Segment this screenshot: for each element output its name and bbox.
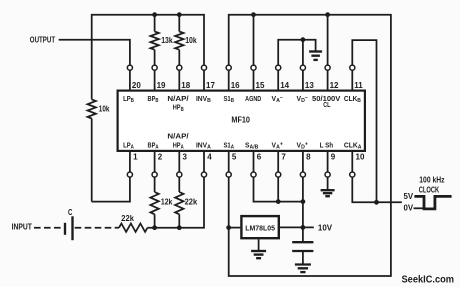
resistor 10k feedback R1 xyxy=(88,99,96,201)
svg-text:AGND: AGND xyxy=(245,94,261,103)
svg-text:100 kHz: 100 kHz xyxy=(419,174,444,184)
pin number 8 xyxy=(306,153,311,162)
svg-text:CL: CL xyxy=(323,100,330,109)
pin number 11 xyxy=(354,81,363,90)
svg-text:10k: 10k xyxy=(185,35,197,45)
wire pin 13 stub top xyxy=(302,70,304,89)
pin label N/AP/ top xyxy=(167,94,189,103)
pin label V_A- xyxy=(272,94,284,104)
node pin 17 terminal xyxy=(201,65,206,70)
junction dot 10V-pin8 xyxy=(301,225,306,230)
wire input dashed right xyxy=(75,227,116,229)
wire pin 19 stub top xyxy=(154,70,156,89)
svg-text:14: 14 xyxy=(280,81,289,90)
ground bypass cap xyxy=(295,265,311,273)
node pin 12 terminal xyxy=(325,65,330,70)
wire V_D- pin13 drop xyxy=(302,40,304,65)
wire pin 1 stub bottom xyxy=(129,152,131,172)
wire CLK_B pin11 to clock line xyxy=(352,40,376,202)
svg-text:15: 15 xyxy=(256,81,265,90)
wire L Sh pin9 ground stub xyxy=(327,177,329,189)
node pin 15 terminal xyxy=(251,65,256,70)
pin number 2 xyxy=(158,153,163,162)
svg-text:17: 17 xyxy=(206,81,215,90)
pin number 10 xyxy=(356,153,365,162)
label 5V xyxy=(404,191,414,201)
wire input dashed left xyxy=(34,227,63,229)
wire V_A+ pin7 drop xyxy=(277,177,279,201)
wire V_D+ pin8 down to bypass cap xyxy=(302,177,304,241)
capacitor C input coupling xyxy=(65,216,73,240)
label C xyxy=(68,207,72,217)
pin number 18 xyxy=(181,81,190,90)
wire pin 6 stub bottom xyxy=(253,152,255,172)
ground level shift pin9 xyxy=(321,190,335,196)
pin label INV_A xyxy=(196,140,212,150)
wire pin 14 stub top xyxy=(277,70,279,89)
resistor 22k shunt R6 xyxy=(175,177,183,227)
wire pin 10 stub bottom xyxy=(351,152,353,172)
pin label BP_B xyxy=(148,94,159,104)
wire pin 8 stub bottom xyxy=(302,152,304,172)
svg-text:LM78L05: LM78L05 xyxy=(245,223,276,232)
wire pin 4 stub bottom xyxy=(203,152,205,172)
pin label HP_B xyxy=(173,103,184,113)
svg-text:13: 13 xyxy=(305,81,314,90)
junction dot input-12k xyxy=(152,225,157,230)
pin label CLK_A xyxy=(344,140,362,150)
ground analog supply xyxy=(309,52,322,60)
pin number 6 xyxy=(257,153,262,162)
pin number 9 xyxy=(331,153,336,162)
pin number 3 xyxy=(183,153,188,162)
node pin 4 terminal xyxy=(201,172,206,177)
node pin 3 terminal xyxy=(177,172,182,177)
wire pin 17 stub top xyxy=(203,70,205,89)
op-amp IC MF10 U1 body xyxy=(118,91,365,151)
svg-text:CLOCK: CLOCK xyxy=(419,184,440,194)
wire V_A- V_D- ground link xyxy=(278,40,315,65)
junction dot rail-pin15 xyxy=(251,12,256,17)
pin label LP_A xyxy=(123,140,134,150)
label 13k R2 xyxy=(161,35,173,45)
wire pin 12 stub top xyxy=(327,70,329,89)
pin number 1 xyxy=(133,153,138,162)
svg-text:4: 4 xyxy=(207,153,212,162)
wire pin 7 stub bottom xyxy=(277,152,279,172)
label 10V xyxy=(318,222,333,232)
label 100 kHz xyxy=(419,174,444,184)
svg-text:C: C xyxy=(68,207,72,217)
node pin 6 terminal xyxy=(251,172,256,177)
junction dot pin8-link xyxy=(301,199,306,204)
node pin 5 terminal xyxy=(226,172,231,177)
svg-text:20: 20 xyxy=(132,81,141,90)
svg-text:0V: 0V xyxy=(404,203,414,213)
pin number 13 xyxy=(305,81,314,90)
pin label CL xyxy=(323,100,330,109)
pin label CLK_B xyxy=(344,94,361,104)
pin number 7 xyxy=(281,153,286,162)
svg-text:13k: 13k xyxy=(161,35,173,45)
junction dot rail-pin12 xyxy=(325,12,330,17)
svg-text:11: 11 xyxy=(354,81,363,90)
pin label S1_B xyxy=(223,94,234,104)
regulator U2 LM78L05 body xyxy=(241,216,278,238)
svg-text:10: 10 xyxy=(356,153,365,162)
svg-text:22k: 22k xyxy=(185,197,198,207)
wire pin 16 stub top xyxy=(228,70,230,89)
ground regulator xyxy=(251,251,266,258)
svg-text:8: 8 xyxy=(306,153,311,162)
junction dot clk xyxy=(374,200,379,205)
wire AGND rail: S1_B, AGND, CL, right side, bottom rail to S1_A xyxy=(229,15,391,276)
svg-text:12: 12 xyxy=(330,81,339,90)
node pin 19 terminal xyxy=(152,65,157,70)
svg-text:16: 16 xyxy=(231,81,240,90)
junction dot pin7-link xyxy=(276,199,281,204)
pin number 19 xyxy=(157,81,166,90)
pin label V_D+ xyxy=(297,140,309,150)
svg-text:2: 2 xyxy=(158,153,163,162)
svg-text:7: 7 xyxy=(281,153,286,162)
wire pin 15 stub top xyxy=(253,70,255,89)
label OUTPUT xyxy=(30,35,56,45)
node pin 1 terminal xyxy=(127,172,132,177)
label 10k R3 xyxy=(185,35,197,45)
pin number 14 xyxy=(280,81,289,90)
pin number 4 xyxy=(207,153,212,162)
node pin 9 terminal xyxy=(325,172,330,177)
resistor 13k R2 xyxy=(150,15,158,65)
svg-text:1: 1 xyxy=(133,153,138,162)
svg-text:10V: 10V xyxy=(318,222,333,232)
label 22k R4 xyxy=(121,213,134,223)
clock waveform 100kHz xyxy=(414,196,451,209)
wire AGND pin15 drop xyxy=(253,15,255,65)
label 0V xyxy=(404,203,414,213)
wire pin 9 stub bottom xyxy=(327,152,329,172)
svg-text:OUTPUT: OUTPUT xyxy=(30,35,56,45)
wire LP_A pin1 to feedback node xyxy=(92,177,130,201)
svg-text:MF10: MF10 xyxy=(231,114,250,124)
pin label L Sh xyxy=(320,140,334,149)
wire cap to ground xyxy=(302,252,304,265)
pin number 12 xyxy=(330,81,339,90)
junction dot pin13-gnd-link xyxy=(301,37,306,42)
pin label 50/100V xyxy=(312,94,341,103)
wire pin 5 stub bottom xyxy=(228,152,230,172)
node pin 18 terminal xyxy=(177,65,182,70)
node pin 16 terminal xyxy=(226,65,231,70)
label 12k R5 xyxy=(161,197,173,207)
node pin 13 terminal xyxy=(300,65,305,70)
pin number 20 xyxy=(132,81,141,90)
wire OUTPUT to LP_B pin20 xyxy=(59,40,130,65)
node pin 7 terminal xyxy=(276,172,281,177)
pin number 16 xyxy=(231,81,240,90)
pin number 17 xyxy=(206,81,215,90)
pin label LP_B xyxy=(123,94,134,104)
svg-text:L Sh: L Sh xyxy=(320,140,334,149)
svg-text:3: 3 xyxy=(183,153,188,162)
node pin 8 terminal xyxy=(300,172,305,177)
label LM78L05 xyxy=(245,223,276,232)
junction dot input-22k xyxy=(177,225,182,230)
label CLOCK xyxy=(419,184,440,194)
wire S_A/B V_A+ to V_D+ link xyxy=(254,177,303,201)
pin label V_A+ xyxy=(272,140,284,150)
label 22k R6 xyxy=(185,197,198,207)
resistor 10k R3 xyxy=(175,15,183,65)
label MF10 xyxy=(231,114,250,124)
node pin 10 terminal xyxy=(350,172,355,177)
pin label V_D- xyxy=(297,94,309,104)
wire pin 18 stub top xyxy=(178,70,180,89)
svg-text:N/AP/: N/AP/ xyxy=(167,94,189,103)
watermark SeekIC.com xyxy=(402,273,455,285)
wire pin 3 stub bottom xyxy=(178,152,180,172)
node pin 14 terminal xyxy=(276,65,281,70)
label INPUT xyxy=(12,221,33,231)
svg-text:N/AP/: N/AP/ xyxy=(167,131,189,140)
wire 0V level xyxy=(414,207,425,209)
junction dot S1_A regulator tap xyxy=(226,225,231,230)
node pin 20 terminal xyxy=(127,65,132,70)
svg-text:10k: 10k xyxy=(99,104,110,114)
svg-text:5V: 5V xyxy=(404,191,414,201)
svg-text:INPUT: INPUT xyxy=(12,221,33,231)
svg-text:22k: 22k xyxy=(121,213,134,223)
wire regulator input xyxy=(229,227,241,229)
node pin 2 terminal xyxy=(152,172,157,177)
svg-text:18: 18 xyxy=(181,81,190,90)
svg-text:9: 9 xyxy=(331,153,336,162)
node pin 11 terminal xyxy=(350,65,355,70)
pin label INV_B xyxy=(196,94,211,104)
junction dot rail-13k xyxy=(152,12,157,17)
wire 10V output xyxy=(280,226,314,228)
pin label HP_A xyxy=(173,140,185,150)
junction dot rail-10k xyxy=(177,12,182,17)
wire pin 11 stub top xyxy=(351,70,353,89)
label 10k R1 xyxy=(99,104,110,114)
wire left feedback vertical with top rail to INV_B xyxy=(92,15,204,100)
wire regulator ground stub xyxy=(258,240,260,251)
pin label BP_A xyxy=(148,140,160,150)
pin label N/AP/ bottom xyxy=(167,131,189,140)
wire pin 2 stub bottom xyxy=(154,152,156,172)
capacitor bypass C2 xyxy=(292,242,313,251)
pin number 15 xyxy=(256,81,265,90)
pin label S1_A xyxy=(223,140,234,150)
pin label S_A/B xyxy=(245,140,258,150)
svg-text:SeekIC.com: SeekIC.com xyxy=(402,273,455,285)
pin number 5 xyxy=(232,153,237,162)
svg-text:19: 19 xyxy=(157,81,166,90)
wire CLK_A pin10 to clock line xyxy=(352,177,402,202)
pin label AGND xyxy=(245,94,261,103)
svg-text:6: 6 xyxy=(257,153,262,162)
resistor 12k R5 xyxy=(150,177,158,227)
svg-text:5: 5 xyxy=(232,153,237,162)
wire pin 20 stub top xyxy=(129,70,131,89)
wire CL pin12 drop xyxy=(327,15,329,65)
svg-text:12k: 12k xyxy=(161,197,173,207)
resistor 22k series R4 xyxy=(116,177,204,232)
